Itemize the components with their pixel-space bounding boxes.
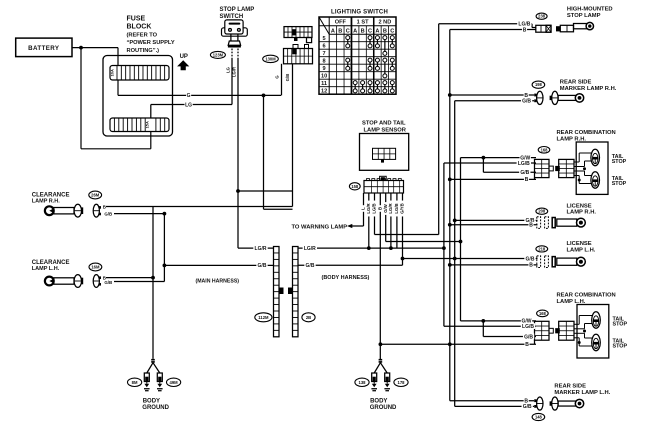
svg-text:FUSE: FUSE xyxy=(127,16,146,23)
svg-text:B: B xyxy=(529,223,533,229)
svg-text:MARKER LAMP R.H.: MARKER LAMP R.H. xyxy=(560,86,617,92)
svg-text:STOP: STOP xyxy=(613,321,628,327)
svg-text:112M: 112M xyxy=(258,315,269,320)
svg-text:LICENSE: LICENSE xyxy=(567,203,592,209)
svg-text:REAR SIDE: REAR SIDE xyxy=(554,384,586,390)
svg-text:LAMP SENSOR: LAMP SENSOR xyxy=(364,128,407,134)
svg-text:8M: 8M xyxy=(132,380,138,385)
svg-text:A: A xyxy=(353,28,357,34)
svg-text:(REFER TO: (REFER TO xyxy=(127,33,158,39)
svg-text:G: G xyxy=(187,93,191,99)
svg-text:B: B xyxy=(338,28,342,34)
svg-text:BODY: BODY xyxy=(143,399,160,405)
svg-text:7: 7 xyxy=(323,51,326,57)
svg-text:138: 138 xyxy=(359,380,367,385)
svg-text:G/YB: G/YB xyxy=(400,203,405,214)
svg-text:CLEARANCE: CLEARANCE xyxy=(32,192,70,198)
svg-text:OFF: OFF xyxy=(335,20,347,26)
svg-text:G/B: G/B xyxy=(285,74,290,81)
svg-text:G: G xyxy=(274,75,279,78)
svg-text:BODY: BODY xyxy=(370,399,387,405)
svg-text:B: B xyxy=(529,263,533,269)
svg-text:15A: 15A xyxy=(145,121,150,128)
svg-text:L: L xyxy=(361,207,366,210)
svg-text:16M: 16M xyxy=(91,265,100,270)
svg-text:LAMP R.H.: LAMP R.H. xyxy=(32,199,60,205)
svg-text:6: 6 xyxy=(323,44,326,50)
svg-text:49M: 49M xyxy=(170,380,179,385)
svg-text:LG/R: LG/R xyxy=(366,202,371,213)
svg-text:B: B xyxy=(523,27,527,33)
svg-text:B: B xyxy=(525,177,529,183)
svg-text:LAMP L.H.: LAMP L.H. xyxy=(32,266,60,272)
svg-text:REAR COMBINATION: REAR COMBINATION xyxy=(557,292,616,298)
svg-text:G/B: G/B xyxy=(526,256,535,262)
svg-text:LIGHTING SWITCH: LIGHTING SWITCH xyxy=(331,9,388,15)
svg-text:“POWER SUPPLY: “POWER SUPPLY xyxy=(127,40,175,46)
svg-text:B: B xyxy=(525,342,529,348)
svg-text:G/B: G/B xyxy=(523,404,532,410)
svg-text:10: 10 xyxy=(321,74,327,80)
svg-text:TO WARNING LAMP: TO WARNING LAMP xyxy=(292,225,348,231)
svg-text:130M: 130M xyxy=(265,56,276,61)
svg-text:168: 168 xyxy=(539,311,547,316)
svg-text:BLOCK: BLOCK xyxy=(127,24,152,31)
svg-text:B: B xyxy=(378,207,383,210)
svg-text:12: 12 xyxy=(321,89,327,95)
svg-text:HIGH-MOUNTED: HIGH-MOUNTED xyxy=(567,6,613,12)
svg-text:GROUND: GROUND xyxy=(370,405,397,411)
svg-text:STOP LAMP: STOP LAMP xyxy=(220,7,255,13)
svg-text:158: 158 xyxy=(351,184,359,189)
svg-text:ROUTING”.): ROUTING”.) xyxy=(127,48,160,54)
svg-text:G/B: G/B xyxy=(520,170,529,176)
svg-text:LG/B: LG/B xyxy=(518,161,530,167)
svg-text:11: 11 xyxy=(321,81,327,87)
svg-text:G/B: G/B xyxy=(524,334,533,340)
svg-text:STOP: STOP xyxy=(612,181,627,187)
svg-text:10A: 10A xyxy=(110,69,115,76)
svg-text:STOP AND TAIL: STOP AND TAIL xyxy=(362,121,406,127)
svg-text:198: 198 xyxy=(535,82,543,87)
svg-text:(MAIN HARNESS): (MAIN HARNESS) xyxy=(196,279,240,285)
svg-text:208: 208 xyxy=(538,209,546,214)
svg-text:C: C xyxy=(368,28,372,34)
svg-text:238: 238 xyxy=(538,14,546,19)
svg-text:2B: 2B xyxy=(306,315,311,320)
svg-text:2 ND: 2 ND xyxy=(378,20,391,26)
svg-text:C: C xyxy=(390,28,394,34)
svg-text:C: C xyxy=(346,28,350,34)
svg-text:LG/R: LG/R xyxy=(255,246,267,252)
svg-text:A: A xyxy=(331,28,335,34)
svg-text:A: A xyxy=(375,28,379,34)
svg-text:STOP: STOP xyxy=(613,344,628,350)
svg-text:LG: LG xyxy=(225,67,230,73)
svg-text:5: 5 xyxy=(323,36,326,42)
svg-text:LG/B: LG/B xyxy=(522,324,534,330)
svg-text:LG: LG xyxy=(185,102,192,108)
svg-text:LICENSE: LICENSE xyxy=(567,241,592,247)
svg-text:REAR SIDE: REAR SIDE xyxy=(560,80,592,86)
svg-text:LG/R: LG/R xyxy=(388,202,393,213)
svg-text:26M: 26M xyxy=(91,193,100,198)
svg-text:G/B: G/B xyxy=(306,263,315,269)
svg-text:LAMP R.H.: LAMP R.H. xyxy=(567,210,597,216)
svg-text:B: B xyxy=(361,28,365,34)
svg-text:MARKER LAMP L.H.: MARKER LAMP L.H. xyxy=(554,390,610,396)
svg-text:STOP: STOP xyxy=(612,159,627,165)
svg-text:CLEARANCE: CLEARANCE xyxy=(32,260,70,266)
svg-text:LG/R: LG/R xyxy=(304,246,316,252)
svg-text:8: 8 xyxy=(323,59,326,65)
svg-text:G/B: G/B xyxy=(522,99,531,105)
svg-text:LAMP L.H.: LAMP L.H. xyxy=(567,248,596,254)
svg-text:168: 168 xyxy=(541,147,549,152)
svg-text:B: B xyxy=(103,204,106,209)
svg-text:BATTERY: BATTERY xyxy=(28,45,60,52)
svg-text:218: 218 xyxy=(538,246,546,251)
svg-text:G/B: G/B xyxy=(104,280,112,285)
svg-text:GROUND: GROUND xyxy=(142,405,169,411)
svg-text:9: 9 xyxy=(323,66,326,72)
svg-text:G/B: G/B xyxy=(258,263,267,269)
svg-text:G/B: G/B xyxy=(104,212,112,217)
svg-text:STOP LAMP: STOP LAMP xyxy=(567,13,601,19)
svg-text:1 ST: 1 ST xyxy=(357,20,369,26)
svg-text:LG/B: LG/B xyxy=(372,203,377,213)
svg-text:LG/B: LG/B xyxy=(394,203,399,213)
svg-text:123M: 123M xyxy=(213,52,224,57)
svg-text:148: 148 xyxy=(535,414,543,419)
svg-text:UP: UP xyxy=(180,54,188,60)
svg-text:(BODY HARNESS): (BODY HARNESS) xyxy=(322,275,370,281)
svg-text:REAR COMBINATION: REAR COMBINATION xyxy=(557,130,616,136)
svg-text:178: 178 xyxy=(398,380,406,385)
svg-text:B: B xyxy=(383,28,387,34)
svg-text:LG/R: LG/R xyxy=(232,67,237,77)
